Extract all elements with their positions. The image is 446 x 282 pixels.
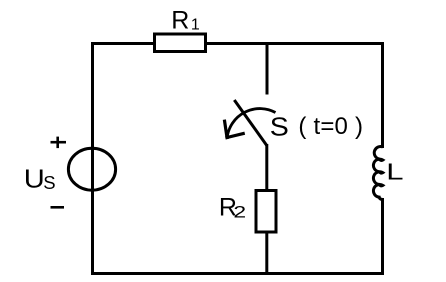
wire: bottom rail — [91, 272, 384, 275]
wire: left rail — [91, 42, 94, 275]
wire: middle branch from switch to R2 — [265, 144, 268, 191]
svg-text:U: U — [24, 164, 45, 193]
resistor R1 — [155, 34, 206, 52]
switch S arrowhead — [225, 121, 244, 137]
wire: middle branch below R2 — [265, 232, 268, 275]
voltage source US circle — [68, 148, 115, 190]
inductor L coil — [373, 147, 382, 200]
plus sign of source — [51, 137, 67, 149]
switch S blade — [234, 100, 266, 145]
svg-text:( t=0 ): ( t=0 ) — [298, 113, 363, 140]
wire: middle branch upper stub (node to switch) — [266, 42, 269, 95]
minus sign of source — [51, 206, 65, 209]
wire: right rail lower segment — [381, 198, 384, 275]
resistor R2 — [256, 191, 276, 233]
svg-text:1: 1 — [191, 16, 200, 33]
switch S actuation arrow arc — [227, 109, 275, 137]
wire: right rail upper segment — [381, 42, 384, 148]
svg-text:L: L — [386, 158, 403, 184]
svg-text:S: S — [43, 172, 55, 193]
svg-text:2: 2 — [233, 203, 246, 222]
svg-text:S: S — [270, 112, 289, 141]
wire: top rail — [91, 42, 384, 45]
svg-text:R: R — [171, 6, 189, 34]
